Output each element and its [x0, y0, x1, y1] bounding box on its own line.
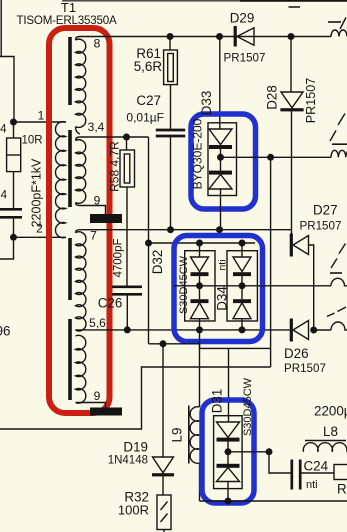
transformer T1 red box — [49, 28, 110, 413]
T1 core — [68, 37, 72, 105]
capacitor C24 — [269, 452, 291, 473]
centre rail D32/D34 to output coil — [174, 285, 331, 287]
T1 secondary winding pin 3,4 to 9 — [76, 140, 86, 204]
resistor 10R — [13, 122, 15, 138]
inductor L8 — [305, 440, 346, 442]
node D28 top — [288, 33, 295, 40]
svg-text:2200pF*1kV: 2200pF*1kV — [30, 158, 44, 227]
svg-text:4: 4 — [1, 190, 8, 202]
node D34 bottom — [239, 326, 246, 333]
right edge coil (D26 330) — [331, 322, 347, 330]
svg-text:7: 7 — [90, 229, 97, 243]
rail pin 3,4 — [80, 136, 149, 138]
node rail B corner — [145, 240, 152, 247]
node D32 bottom — [196, 326, 203, 333]
node C26 bottom — [124, 326, 131, 333]
node R61 top — [167, 33, 174, 40]
svg-text:9: 9 — [94, 389, 101, 403]
svg-text:L8: L8 — [323, 424, 338, 439]
svg-text:1: 1 — [38, 109, 45, 123]
svg-text:PR1507: PR1507 — [284, 362, 326, 375]
svg-text:PR1507: PR1507 — [304, 78, 318, 124]
pin 9 lower exit wire — [76, 403, 106, 408]
node D19 top — [160, 340, 167, 347]
svg-text:9: 9 — [94, 194, 101, 208]
svg-text:4: 4 — [0, 124, 7, 136]
svg-text:2: 2 — [36, 222, 43, 236]
T1 secondary winding pin 5,6 to 9 — [76, 335, 86, 403]
D31 centre tap wire — [228, 451, 269, 453]
dual diode D33 — [191, 114, 256, 209]
svg-text:T1: T1 — [61, 0, 76, 15]
right edge coil (centre rail 286) — [331, 278, 347, 286]
svg-text:8: 8 — [94, 37, 101, 51]
svg-text:5,6: 5,6 — [89, 316, 106, 330]
resistor R61 — [169, 37, 171, 51]
node D33 top — [216, 33, 223, 40]
T1 primary winding (pins 1-2) — [55, 122, 65, 238]
node D33 bottom — [216, 226, 223, 233]
resistor R32 (fusible) — [157, 495, 171, 530]
wire node1 to primary pin 1 — [14, 121, 67, 123]
svg-text:C26: C26 — [98, 296, 123, 311]
svg-text:D28: D28 — [265, 85, 280, 110]
T1 secondary winding pin 7 to 5,6 — [76, 232, 86, 331]
svg-text:R58 4,7R: R58 4,7R — [108, 141, 122, 192]
diode D28 — [290, 37, 292, 93]
node D34 feed — [239, 240, 246, 247]
svg-text:3,4: 3,4 — [88, 120, 105, 134]
svg-text:C24: C24 — [304, 459, 329, 474]
pin 9 upper exit wire — [76, 203, 106, 214]
resistor R58 — [126, 137, 128, 150]
svg-text:D27: D27 — [313, 203, 338, 218]
top border line — [62, 0, 347, 2]
black bar lower — [90, 408, 122, 416]
rail pin 5,6 — [80, 329, 290, 331]
svg-text:C27: C27 — [136, 93, 161, 108]
svg-text:nti: nti — [306, 479, 318, 491]
D32 column — [199, 243, 201, 257]
svg-text:nti: nti — [217, 259, 229, 270]
node C27 bottom — [167, 226, 174, 233]
diode D19 — [162, 344, 164, 457]
D33 centre tap wire — [221, 156, 332, 158]
diode D27 — [290, 234, 293, 257]
lead R58 to C26 — [126, 187, 128, 286]
dual diodes D32 / D34 — [174, 236, 263, 342]
svg-text:D32: D32 — [150, 250, 165, 275]
node D32 feed — [196, 240, 203, 247]
D34 column — [241, 243, 243, 257]
node 2 — [10, 234, 17, 241]
wire D33 top feed — [219, 37, 221, 130]
svg-text:D31: D31 — [210, 389, 225, 414]
rail pin 7 — [80, 229, 291, 231]
black bar upper — [90, 214, 122, 223]
svg-text:D29: D29 — [230, 11, 255, 26]
output bus vertical — [270, 157, 272, 367]
svg-text:0,01µF: 0,01µF — [126, 111, 164, 125]
top rail pin 8 — [80, 36, 331, 38]
svg-text:10R: 10R — [22, 135, 43, 147]
svg-text:1N4148: 1N4148 — [108, 455, 148, 467]
inductor L9 feed from D32/D34 — [199, 330, 201, 407]
svg-text:5,6R: 5,6R — [134, 59, 163, 74]
lead to snubber cap — [13, 172, 15, 209]
node R58 top — [123, 134, 130, 141]
branch line to D19/D31 — [149, 343, 200, 345]
svg-text:4700pF: 4700pF — [113, 238, 125, 277]
svg-text:D19: D19 — [123, 440, 148, 455]
svg-text:PR1507: PR1507 — [300, 220, 342, 233]
svg-text:2200µF: 2200µF — [314, 404, 347, 419]
svg-text:96: 96 — [0, 324, 11, 339]
capacitor 2200pF*1kV — [0, 208, 22, 211]
capacitor C26 — [112, 285, 142, 288]
T1 secondary winding pin 8 to 3,4 — [76, 39, 86, 127]
inductor L9 — [188, 406, 190, 464]
right edge coil (centre tap 157) — [331, 150, 347, 157]
svg-text:R3: R3 — [337, 482, 347, 497]
svg-text:D34: D34 — [215, 286, 230, 311]
svg-text:BYQ30E-200: BYQ30E-200 — [191, 118, 205, 189]
node 1 — [10, 119, 17, 126]
svg-text:100R: 100R — [118, 503, 149, 518]
svg-text:TISOM-ERL35350A: TISOM-ERL35350A — [16, 14, 117, 27]
resistor R (cut at edge) — [334, 465, 347, 480]
capacitor C27 — [170, 85, 172, 129]
dual diode D31 — [228, 348, 230, 422]
svg-text:PR1507: PR1507 — [224, 52, 266, 65]
wire 3,4 rail down — [148, 137, 150, 344]
svg-text:S30D45CW: S30D45CW — [178, 255, 190, 314]
rail B to D32/D34 anodes — [149, 242, 256, 244]
wire node2 to primary pin 2 — [14, 236, 67, 238]
svg-text:D26: D26 — [284, 346, 309, 361]
left edge wire stub — [0, 0, 2, 57]
wire node2 down-left off image — [0, 237, 14, 259]
svg-text:L9: L9 — [170, 428, 185, 443]
bottom rail — [200, 500, 347, 502]
svg-text:S30D45CW: S30D45CW — [242, 377, 254, 436]
diode D26 — [290, 319, 293, 342]
wire top-left to node 1 — [0, 57, 14, 123]
bus lower branch — [0, 367, 271, 429]
diode D29 — [234, 26, 237, 47]
right edge coil top (pin 8 rail) — [331, 30, 347, 36]
svg-text:D33: D33 — [199, 91, 214, 116]
